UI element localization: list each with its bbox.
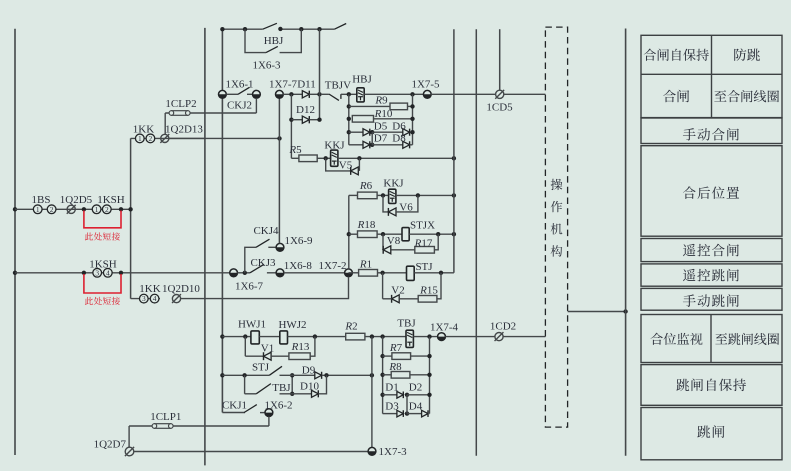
svg-text:CKJ3: CKJ3 [250,257,276,269]
svg-text:D10: D10 [300,380,319,392]
table text 合闸自保持 [644,49,709,61]
terminal 1X7-5 [423,90,431,98]
wire V5 up [358,158,360,171]
junction R9 left [347,104,351,108]
resistor R6 [358,192,378,199]
svg-text:D6: D6 [392,120,406,132]
svg-text:D2: D2 [409,381,422,393]
diode D6 [403,129,410,136]
junction D10 rejoin [324,373,328,377]
HBJ bypass loop wires [245,29,266,52]
svg-text:STJ: STJ [415,261,433,273]
wire TBJ coil to 1X7-4 [413,336,437,338]
contact STJ blade [269,366,282,375]
wire V2 loop [382,273,384,299]
wire D3 in [383,413,397,415]
wire CKJ4 tick [268,246,276,248]
contact CKJ3 blade [250,264,264,273]
table text 防跳 [734,48,760,60]
contact TBJV tick [340,94,342,99]
junction row158/bus454 [452,156,456,160]
relay coil STJ [407,266,415,280]
wire ladder right x412 [412,94,414,145]
contact 1KK-3 circle [139,294,148,303]
junction trip bus mid [370,373,374,377]
strap 1CLP1 [152,424,173,429]
vertical line x626 [625,29,627,456]
terminal 1CD5 [495,90,504,99]
wire D2 row [407,394,430,396]
junction R8 left [380,373,384,377]
table box D [641,239,782,262]
wire TBJV to HBJ coil [341,93,357,95]
wire R1 row left [349,272,359,274]
wire STJ to bus454 [414,272,454,274]
svg-text:R10: R10 [374,108,393,120]
wire R2 to TBJ coil [365,336,406,338]
junction HBJ loop right [299,27,303,31]
wire D8 out [410,144,413,146]
svg-text:D3: D3 [385,400,399,412]
junction TBJ tap [242,373,246,377]
wire to D10 [280,393,312,395]
top wire y=29 [222,28,262,30]
table text 跳闸自保持 [676,379,746,392]
junction R18 left [347,232,351,236]
terminal CKJ2 right [253,90,261,98]
bus x454 [453,29,455,273]
terminal 1X6-7 [230,269,238,277]
wire box to table bus [568,311,626,313]
wire V6 up [396,195,418,212]
junction x291 [289,92,293,96]
junction D7-D8 mid [370,143,374,147]
svg-text:V5: V5 [339,159,353,171]
junction shortlink B left [82,271,86,275]
table text 合位监视 [651,333,703,345]
junction HBJ loop left [243,27,247,31]
junction R9 ladder top [347,92,351,96]
junction bus row A [13,207,17,211]
wire D5 to D6 [372,131,403,133]
junction V5 right [357,156,361,160]
wire 1Q2D10 row seg2 [181,277,349,299]
junction D12 tap [289,118,293,122]
svg-text:1X6-1: 1X6-1 [225,78,253,90]
svg-text:R1: R1 [359,259,372,271]
svg-text:1CLP2: 1CLP2 [165,98,196,110]
wire TBJV in [322,93,329,95]
junction D2 right [427,393,431,397]
table box I [641,408,782,460]
relay coil HWJ1 [251,331,259,344]
annotation 此处短接 A (red) [85,232,120,240]
table text 合后位置 [683,186,739,199]
contact CKJ2 blade [238,87,250,94]
terminal 1X7-7 [276,90,284,98]
strap 1CLP2 [169,111,190,116]
wire 1Q2D10 row [131,298,160,300]
junction D12/bus319 [317,118,321,122]
wire TBJ contact row [245,393,257,395]
svg-text:TBJ: TBJ [397,318,416,330]
wire R13 up [310,337,315,357]
wire V2 to R15 [399,298,418,300]
svg-text:V8: V8 [387,235,401,247]
wire D10 out [319,375,327,394]
table text 跳闸 [697,425,724,438]
svg-text:2: 2 [50,205,54,214]
contact 1KSH-2 circle [102,205,111,214]
svg-text:R2: R2 [344,320,357,332]
contact CKJ1 blade [244,405,257,413]
bus trip x372 [371,337,373,448]
junction D3-D4 mid [405,411,409,415]
diode D7 [363,141,370,148]
wire bottom row [134,451,368,453]
svg-text:V1: V1 [261,342,274,354]
wire R6 row left [349,194,358,196]
svg-text:R8: R8 [388,361,402,373]
wire R7 in [383,355,392,357]
wire 1KK row [131,137,204,139]
terminal 1Q2D13 [160,134,169,143]
wire D12 tap [290,94,292,158]
wire CKJ3 tick [267,272,276,274]
diode D4 [422,410,428,417]
wire ladder left x349 [348,94,350,145]
table text 至跳闸线圈 [715,333,779,345]
wire R6 to KKJ2 [377,194,389,196]
wire after 1X6-7 [237,272,250,274]
table box B [641,118,782,144]
junction shortlink A right [119,207,123,211]
junction shortlink B right [119,271,123,275]
junction D-network right top [427,334,431,338]
svg-text:HWJ2: HWJ2 [278,319,306,331]
diode D1 [397,391,403,398]
contact 1BS-1 circle [33,205,42,214]
terminal 1Q2D7 [125,447,134,456]
table text 遥控跳闸 [683,269,739,282]
wire R5 to KKJ [317,157,330,159]
wire V1 to R13 [271,355,289,357]
svg-text:1X7-3: 1X7-3 [379,446,408,458]
wire row A [15,208,131,210]
svg-text:R7: R7 [389,342,403,354]
svg-text:1X6-8: 1X6-8 [284,260,313,272]
terminal 1X6-9 [276,243,284,251]
svg-text:CKJ2: CKJ2 [227,99,252,111]
wire Dnet right collector [429,337,431,414]
svg-text:R9: R9 [374,95,388,107]
wire 1CLP2 row [165,112,256,114]
wire CKJ2 [226,93,238,95]
wire V5 loop [326,158,351,171]
svg-text:1KSH: 1KSH [89,258,117,270]
wire V8 loop [382,234,384,250]
diode V6 [388,208,396,216]
vertical bus line x=205 [204,28,206,466]
terminal 1X7-2 [345,269,353,277]
junction V8 tap [381,232,385,236]
junction bus222/HWJ row [220,334,224,338]
wire TBJ parallel drop [244,375,246,394]
terminal 1Q2D5 [67,205,76,214]
wire R18 to STJX [377,233,402,235]
svg-text:R18: R18 [357,219,376,231]
resistor R15 [418,296,437,303]
svg-text:1CLP1: 1CLP1 [150,411,181,423]
wire D12col to R5 [291,157,299,159]
wire D12 out [309,119,319,121]
wire riser x=130.6 [130,138,132,298]
junction bus222/STJ row [220,373,224,377]
wire 1X7-7 to D11 [283,93,302,95]
svg-text:KKJ: KKJ [324,139,345,151]
svg-text:STJ: STJ [252,361,270,373]
wire D1D3 mid link [406,395,408,414]
svg-text:1X7-7: 1X7-7 [269,78,298,90]
wire V8 to R17 [392,249,415,251]
wire Dnet left collector [382,337,384,414]
resistor R9 [390,103,408,110]
svg-text:1: 1 [138,134,142,143]
wire 1X7-4 to 1CD2 [445,336,495,338]
svg-text:1CD2: 1CD2 [490,320,516,332]
wire D3-D4 [407,413,422,415]
svg-text:1X7-2: 1X7-2 [318,260,346,272]
wire D7 row left [349,144,363,146]
wire CKJ2 tick [247,93,252,95]
terminal 1CD2 [495,332,504,341]
svg-text:1Q2D5: 1Q2D5 [60,194,93,206]
wire HBJ coil to 1X7-5 [364,93,423,95]
junction joiner bottom [290,392,294,396]
table box C [641,146,782,237]
svg-text:3: 3 [142,294,146,303]
svg-text:HWJ1: HWJ1 [238,318,266,330]
wire 1KK row seg2 [169,137,280,139]
resistor R18 [358,231,378,238]
wire D9 out [322,374,372,376]
resistor R5 [299,155,317,162]
svg-text:D5: D5 [374,120,388,132]
svg-text:D9: D9 [302,364,316,376]
diode V2 [392,295,400,303]
resistor R1 [359,270,378,277]
svg-text:D7: D7 [374,133,388,145]
junction R17 right [436,232,440,236]
wire D1 in [383,394,397,396]
junction D5-D6 mid [370,130,374,134]
terminal 1X7-4 [438,333,446,341]
wire D7 to D8 [372,144,403,146]
svg-text:1X7-4: 1X7-4 [430,322,459,334]
contact 1KK-1 circle [135,134,144,143]
terminal 1Q2D10 [172,294,181,303]
junction V6 right [416,193,420,197]
wire KKJ to bus454 [338,157,454,159]
resistor R2 [346,333,365,340]
junction row234/bus454 [452,232,456,236]
junction R13 right [313,334,317,338]
contact blade a [263,23,277,29]
svg-text:1Q2D10: 1Q2D10 [162,283,200,295]
table text 合闸 [663,90,689,103]
table text 手动跳闸 [683,294,739,307]
wire R7 out [411,355,430,357]
short-link bracket A (red) [84,211,121,228]
junction R10 right [410,117,414,121]
svg-text:2: 2 [105,205,109,214]
bus V319 [319,29,321,120]
junction box/table bus [623,309,627,313]
svg-text:1: 1 [36,205,40,214]
relay coil KKJ b [389,189,396,203]
svg-text:1X6-9: 1X6-9 [284,235,313,247]
svg-text:1X6-2: 1X6-2 [264,399,292,411]
svg-text:R15: R15 [419,284,438,296]
wire V1 in [245,355,263,357]
wire D11 out [309,93,319,95]
wire R8 out [410,374,430,376]
table box G [641,315,782,363]
junction row A corner [128,207,132,211]
wire V1 loop [244,337,246,357]
wire STJX to bus454 [409,233,454,235]
diode D5 [363,129,370,136]
relay coil STJX [402,228,409,241]
svg-text:1BS: 1BS [32,194,51,206]
diode D8 [403,141,410,148]
contact blade b [334,24,346,30]
terminal 1X6-1 [219,90,227,98]
svg-text:D8: D8 [392,133,406,145]
left DC bus (+) [14,29,16,455]
svg-text:TBJ: TBJ [272,382,291,394]
wire CKJ2 down to 1CLP2 [255,98,257,113]
wire 1CD2 to box [503,336,545,338]
wire CKJ4 branch [245,247,256,272]
wire R9 row [349,105,390,107]
junction row195/bus454 [452,193,456,197]
relay coil HWJ2 [280,331,288,344]
table box H [641,365,782,406]
contact CKJ4 blade [256,239,270,247]
diode D3 [397,410,403,417]
junction D-network left top [380,334,384,338]
contact 1KK-4 circle [150,294,159,303]
junction trip bus top [370,334,374,338]
bus x476 [475,29,477,456]
wire R18 row left [349,233,358,235]
svg-text:D4: D4 [409,400,423,412]
junction V6 tap [381,193,385,197]
svg-text:HBJ: HBJ [264,35,284,47]
svg-text:1: 1 [95,205,99,214]
svg-text:3: 3 [95,268,99,277]
junction ladder right top [410,92,414,96]
table text 至合闸线圈 [714,90,779,102]
wire row C [15,272,230,274]
diode D10 [312,390,319,397]
junction R10 left [347,117,351,121]
terminal 1X6-8 [276,269,284,277]
svg-text:CKJ1: CKJ1 [222,400,247,412]
junction D1 left [380,393,384,397]
relay coil TBJ [406,330,413,347]
wire V6 loop [383,195,388,212]
dashed box 操作机构 [545,27,567,427]
svg-text:1X6-3: 1X6-3 [252,59,281,71]
svg-text:V2: V2 [391,284,404,296]
junction V1 tap [243,334,247,338]
junction V2 tap [380,271,384,275]
wire STJ contact row [222,374,269,376]
wire 1X6-2 down [268,417,270,427]
junction D1-D2 mid [405,393,409,397]
diode V5 [351,167,359,175]
svg-text:D1: D1 [385,381,398,393]
bus x500 to 1CD5 [499,29,501,90]
junction top/bus222 [220,27,224,31]
wire R10 out [374,118,413,120]
svg-text:1KK: 1KK [139,283,160,295]
svg-text:1X6-7: 1X6-7 [235,280,264,292]
diode D9 [315,372,322,379]
svg-text:KKJ: KKJ [383,177,404,189]
wire CKJ1 tick [260,412,265,414]
wire 1CD5 to box [504,93,546,95]
table box F [641,288,782,310]
label 操作机构 (vertical) [551,179,563,257]
svg-text:STJX: STJX [410,219,435,231]
diode D11 [302,91,309,98]
junction joiner top [290,373,294,377]
short-link bracket B (red) [84,274,121,293]
svg-text:4: 4 [106,268,110,277]
terminal 1X7-3 [368,447,376,455]
wire R8 in [383,374,392,376]
HBJ bypass loop right [280,29,302,52]
wire CKJ1 row [222,412,245,414]
wire R15 up [437,273,441,299]
resistor R10 [352,116,373,123]
svg-text:D12: D12 [296,104,315,116]
table text 遥控合闸 [683,244,739,257]
junction bus row C [13,271,17,275]
resistor R8 [391,372,410,379]
resistor R17 [415,247,435,254]
bus 1X7-7 to 1X6-9 [278,98,280,243]
wire KKJ2 to bus454 [396,194,454,196]
wire V2 in [383,298,392,300]
wire R9 out [408,105,413,107]
junction D6 right [410,130,414,134]
svg-text:1Q2D13: 1Q2D13 [165,124,203,136]
wire R1 to STJ [378,272,407,274]
wire D4 out [428,413,430,415]
wire HWJ1-HWJ2 [259,336,280,338]
wire 1X7-5 to 1CD5 [431,93,495,95]
relay coil HBJ [357,88,364,102]
terminal 1X6-2 [265,409,273,417]
contact HBJ blade [266,46,278,52]
wire D5D6-D7D8 mid link [371,132,373,145]
svg-text:R13: R13 [291,341,310,353]
wire D5 in [349,131,363,133]
